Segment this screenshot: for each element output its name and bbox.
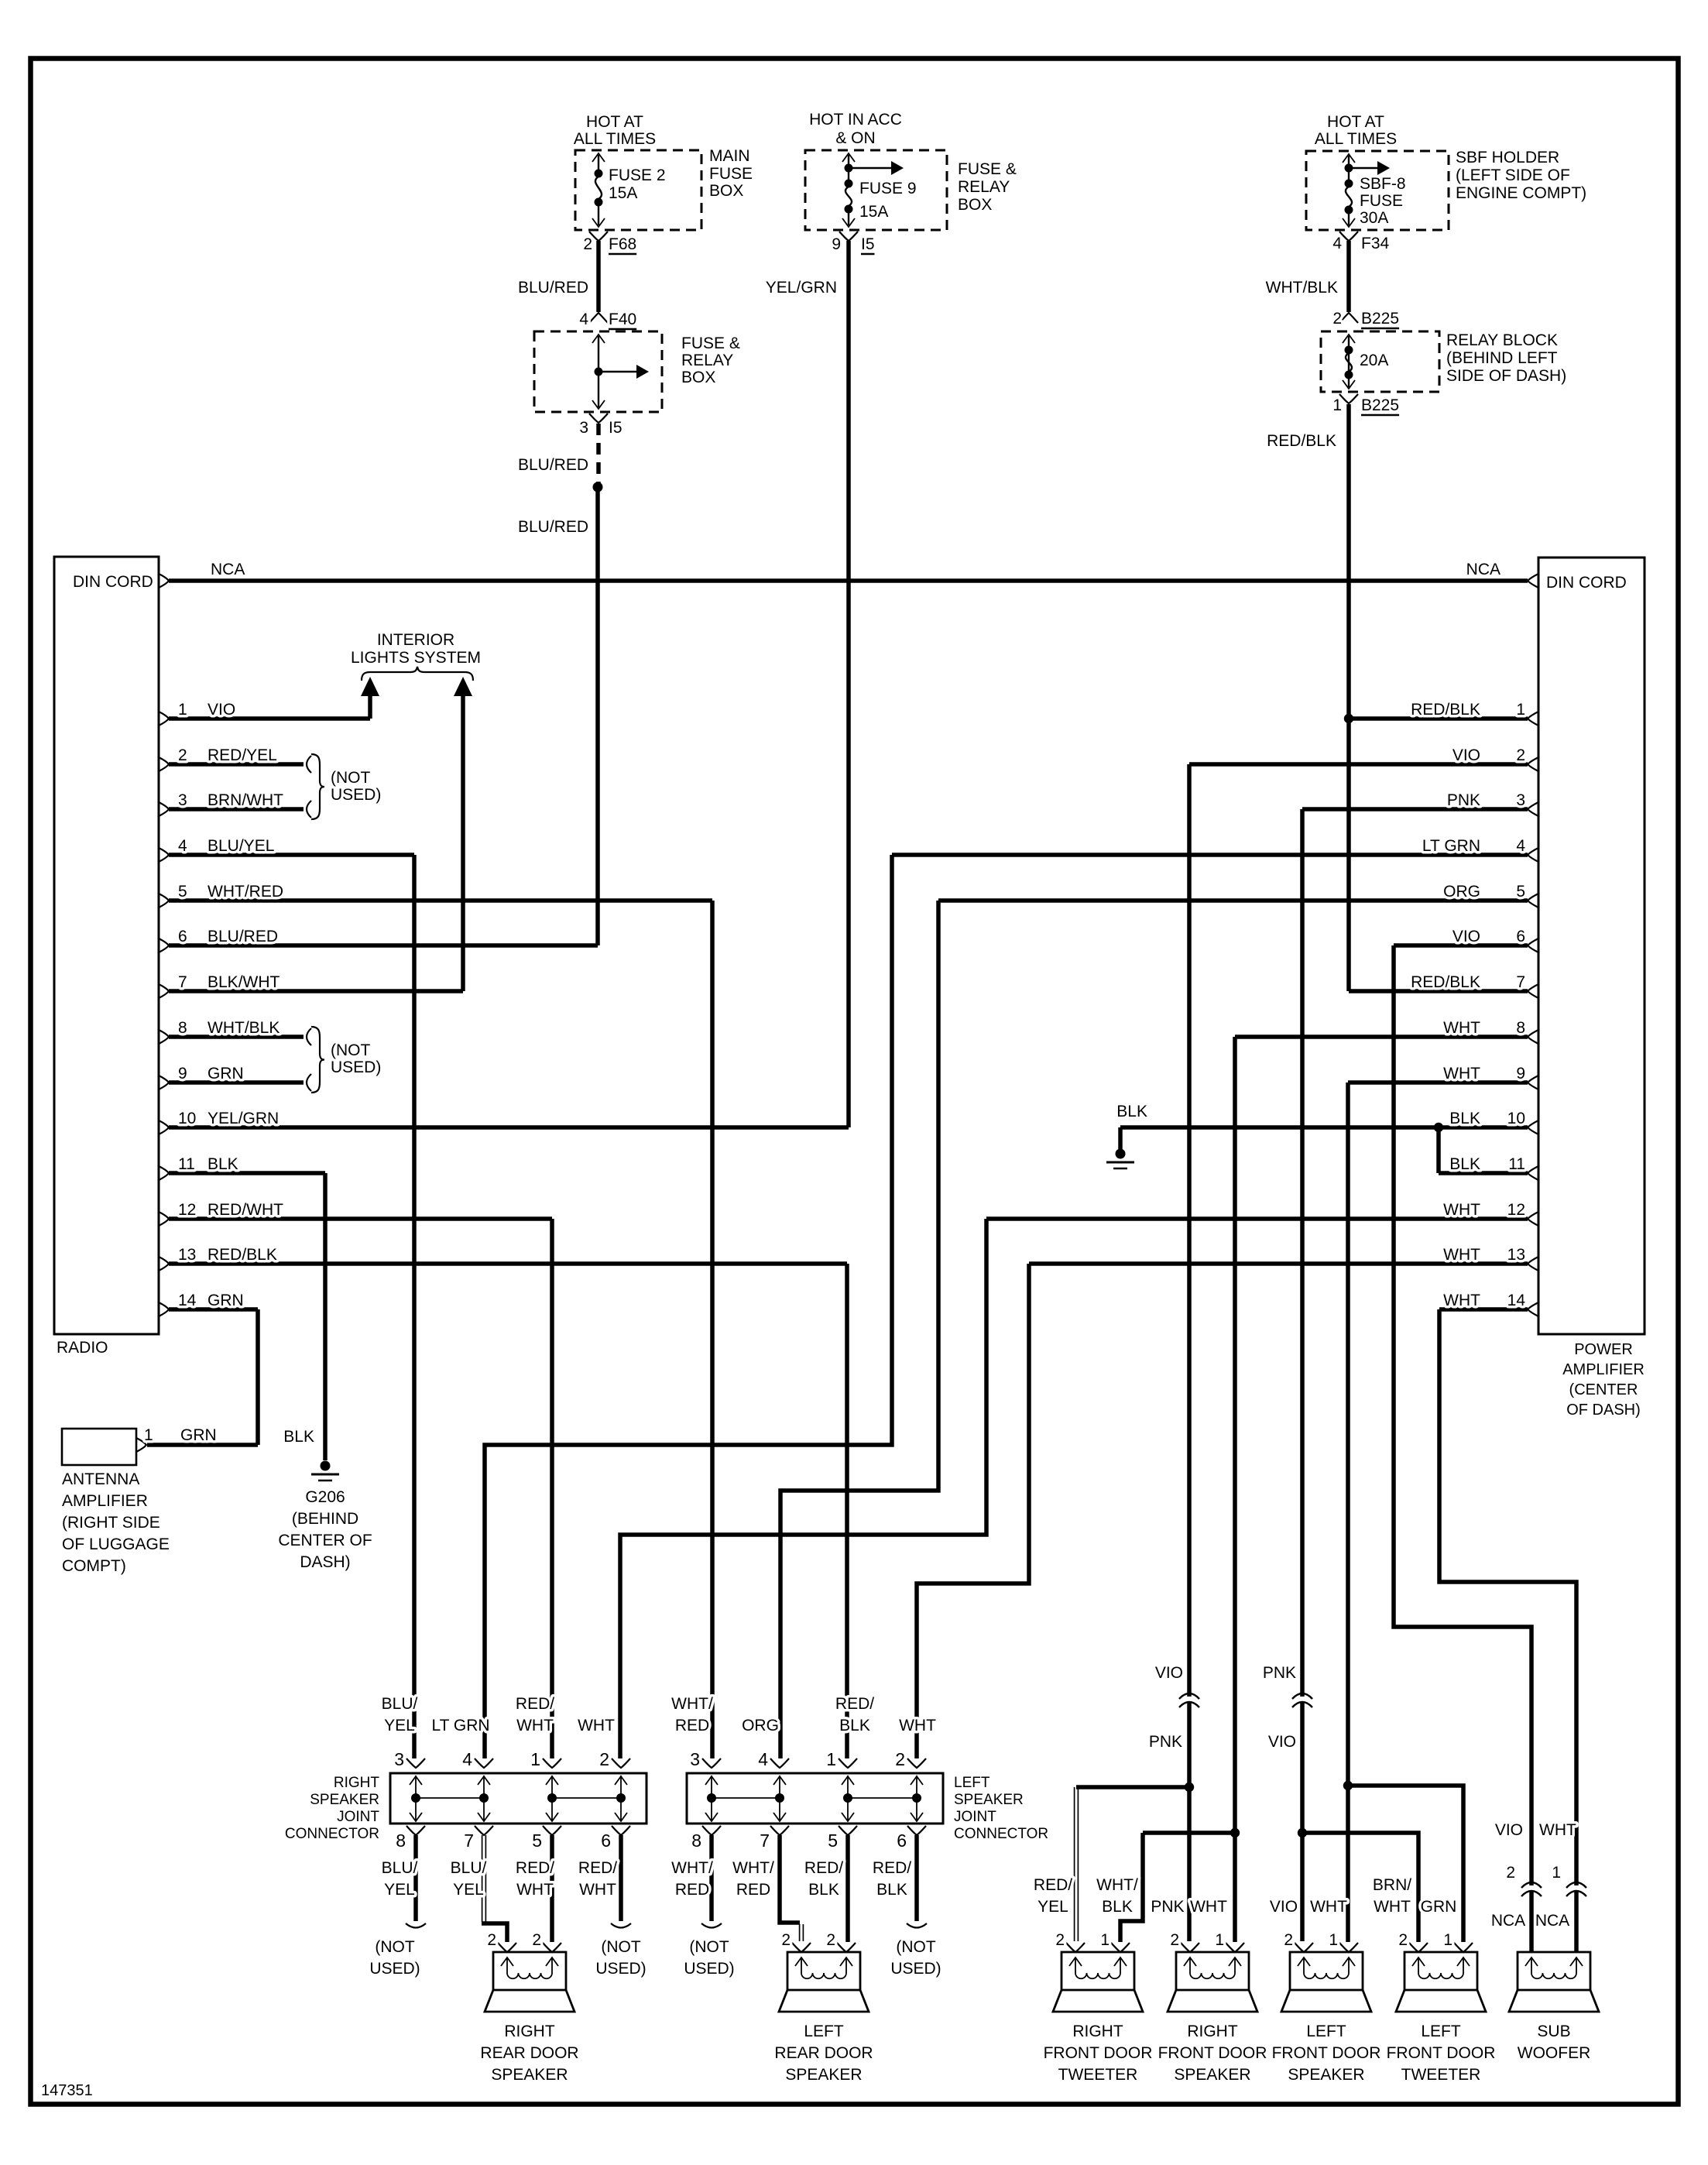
svg-text:SPEAKER: SPEAKER — [310, 1792, 379, 1808]
svg-text:JOINT: JOINT — [337, 1809, 379, 1825]
svg-text:BLK: BLK — [1449, 1110, 1480, 1127]
svg-text:RED/: RED/ — [516, 1695, 554, 1713]
svg-text:PNK: PNK — [1447, 791, 1480, 809]
svg-text:6: 6 — [1516, 928, 1525, 945]
svg-text:GRN: GRN — [207, 1292, 244, 1309]
svg-text:BLU/: BLU/ — [382, 1859, 418, 1877]
svg-text:WHT/: WHT/ — [732, 1859, 774, 1877]
svg-text:WHT: WHT — [1443, 1246, 1480, 1264]
svg-text:5: 5 — [1516, 883, 1525, 901]
svg-text:NCA: NCA — [1491, 1912, 1525, 1930]
svg-text:VIO: VIO — [207, 701, 235, 719]
svg-text:NCA: NCA — [1466, 561, 1501, 578]
svg-text:147351: 147351 — [41, 2082, 93, 2099]
svg-text:BLK: BLK — [1102, 1898, 1133, 1916]
svg-text:RED/: RED/ — [873, 1859, 911, 1877]
svg-text:TWEETER: TWEETER — [1058, 2066, 1138, 2084]
svg-text:RED/: RED/ — [835, 1695, 874, 1713]
svg-text:BOX: BOX — [958, 196, 992, 214]
svg-text:4: 4 — [1516, 837, 1525, 855]
svg-text:WHT: WHT — [1443, 1065, 1480, 1082]
svg-text:SBF HOLDER: SBF HOLDER — [1456, 149, 1559, 166]
svg-text:6: 6 — [601, 1830, 611, 1851]
svg-text:LIGHTS SYSTEM: LIGHTS SYSTEM — [351, 649, 481, 667]
svg-text:4: 4 — [178, 837, 187, 855]
svg-text:BLU/RED: BLU/RED — [518, 518, 588, 536]
svg-text:3: 3 — [690, 1749, 700, 1769]
svg-text:BLK: BLK — [876, 1881, 907, 1899]
svg-text:7: 7 — [464, 1830, 474, 1851]
svg-text:RIGHT: RIGHT — [334, 1775, 380, 1791]
svg-text:13: 13 — [178, 1246, 196, 1264]
svg-text:MAIN: MAIN — [709, 147, 750, 165]
svg-text:RED: RED — [736, 1881, 770, 1899]
svg-text:RED/: RED/ — [804, 1859, 843, 1877]
svg-text:ORG: ORG — [742, 1717, 779, 1734]
svg-text:2: 2 — [532, 1931, 541, 1949]
svg-text:11: 11 — [178, 1155, 195, 1173]
svg-text:RED: RED — [675, 1717, 709, 1734]
svg-text:10: 10 — [178, 1110, 196, 1127]
svg-text:SPEAKER: SPEAKER — [785, 2066, 862, 2084]
svg-text:5: 5 — [532, 1830, 542, 1851]
svg-text:FUSE 9: FUSE 9 — [859, 180, 917, 197]
svg-text:ALL TIMES: ALL TIMES — [1315, 130, 1397, 148]
svg-text:SIDE OF DASH): SIDE OF DASH) — [1446, 367, 1566, 385]
svg-text:1: 1 — [1329, 1931, 1338, 1949]
svg-text:DIN CORD: DIN CORD — [1546, 574, 1627, 592]
svg-text:12: 12 — [178, 1201, 196, 1219]
svg-text:OF DASH): OF DASH) — [1566, 1402, 1641, 1419]
svg-text:6: 6 — [897, 1830, 907, 1851]
svg-text:GRN: GRN — [180, 1426, 217, 1444]
svg-text:WHT: WHT — [899, 1717, 936, 1734]
svg-text:2: 2 — [599, 1749, 609, 1769]
svg-text:1: 1 — [144, 1426, 153, 1444]
svg-text:RED: RED — [675, 1881, 709, 1899]
svg-text:ENGINE COMPT): ENGINE COMPT) — [1456, 184, 1586, 202]
svg-text:RELAY BLOCK: RELAY BLOCK — [1446, 331, 1558, 349]
svg-text:WHT/BLK: WHT/BLK — [207, 1019, 280, 1037]
svg-text:YEL: YEL — [453, 1881, 484, 1899]
svg-text:CENTER OF: CENTER OF — [278, 1532, 372, 1549]
svg-text:BLK: BLK — [1449, 1155, 1480, 1173]
svg-text:9: 9 — [178, 1065, 187, 1082]
svg-text:LEFT: LEFT — [1306, 2023, 1346, 2040]
svg-text:RADIO: RADIO — [57, 1339, 108, 1357]
svg-text:(NOT: (NOT — [689, 1938, 729, 1956]
svg-text:GRN: GRN — [1421, 1898, 1457, 1916]
svg-text:FRONT DOOR: FRONT DOOR — [1272, 2044, 1381, 2062]
svg-text:DIN CORD: DIN CORD — [73, 573, 153, 591]
svg-text:4: 4 — [462, 1749, 472, 1769]
svg-text:13: 13 — [1507, 1246, 1525, 1264]
svg-text:& ON: & ON — [835, 129, 875, 147]
svg-text:(BEHIND: (BEHIND — [292, 1510, 358, 1528]
svg-text:BLU/: BLU/ — [451, 1859, 487, 1877]
svg-text:RED/BLK: RED/BLK — [1411, 973, 1480, 991]
svg-text:WHT: WHT — [1443, 1201, 1480, 1219]
svg-text:(NOT: (NOT — [601, 1938, 640, 1956]
svg-text:USED): USED) — [369, 1960, 420, 1978]
svg-text:BRN/: BRN/ — [1373, 1876, 1411, 1894]
svg-text:VIO: VIO — [1452, 746, 1480, 764]
svg-text:1: 1 — [1215, 1931, 1224, 1949]
svg-text:SUB: SUB — [1537, 2023, 1570, 2040]
svg-text:FRONT DOOR: FRONT DOOR — [1387, 2044, 1496, 2062]
svg-text:7: 7 — [1516, 973, 1525, 991]
svg-text:G206: G206 — [305, 1488, 345, 1506]
svg-text:2: 2 — [487, 1931, 496, 1949]
svg-text:12: 12 — [1507, 1201, 1525, 1219]
svg-text:FRONT DOOR: FRONT DOOR — [1044, 2044, 1153, 2062]
svg-text:HOT AT: HOT AT — [586, 113, 643, 131]
svg-text:BLK: BLK — [808, 1881, 839, 1899]
svg-text:GRN: GRN — [207, 1065, 244, 1082]
svg-text:TWEETER: TWEETER — [1401, 2066, 1481, 2084]
svg-text:BLK: BLK — [283, 1428, 314, 1446]
svg-text:4: 4 — [579, 311, 588, 328]
svg-text:VIO: VIO — [1452, 928, 1480, 945]
svg-text:FUSE &: FUSE & — [958, 160, 1017, 178]
svg-text:RED/BLK: RED/BLK — [1267, 432, 1336, 450]
svg-text:BLU/RED: BLU/RED — [518, 279, 588, 297]
svg-text:1: 1 — [178, 701, 187, 719]
svg-text:I5: I5 — [609, 419, 622, 437]
svg-text:REAR DOOR: REAR DOOR — [480, 2044, 578, 2062]
svg-text:DASH): DASH) — [300, 1553, 350, 1571]
svg-text:FRONT DOOR: FRONT DOOR — [1158, 2044, 1267, 2062]
svg-text:(CENTER: (CENTER — [1569, 1381, 1638, 1398]
svg-text:2: 2 — [1516, 746, 1525, 764]
svg-text:USED): USED) — [595, 1960, 646, 1978]
svg-text:14: 14 — [178, 1292, 197, 1309]
svg-text:2: 2 — [1284, 1931, 1293, 1949]
svg-text:2: 2 — [1332, 310, 1342, 328]
svg-text:BLK: BLK — [207, 1155, 238, 1173]
svg-text:B225: B225 — [1361, 310, 1399, 328]
svg-text:SPEAKER: SPEAKER — [1288, 2066, 1364, 2084]
svg-text:HOT IN ACC: HOT IN ACC — [809, 111, 902, 129]
svg-text:BLU/RED: BLU/RED — [207, 928, 278, 945]
svg-text:2: 2 — [1398, 1931, 1408, 1949]
svg-text:RIGHT: RIGHT — [1072, 2023, 1123, 2040]
svg-text:(RIGHT SIDE: (RIGHT SIDE — [62, 1514, 160, 1532]
svg-text:15A: 15A — [859, 203, 888, 221]
svg-text:YEL/GRN: YEL/GRN — [207, 1110, 279, 1127]
svg-text:5: 5 — [178, 883, 187, 901]
svg-text:(NOT: (NOT — [896, 1938, 935, 1956]
svg-text:WHT: WHT — [1190, 1898, 1227, 1916]
svg-text:9: 9 — [832, 235, 841, 253]
svg-text:30A: 30A — [1360, 209, 1388, 227]
svg-text:15A: 15A — [609, 184, 637, 202]
svg-text:14: 14 — [1507, 1292, 1526, 1309]
svg-text:4: 4 — [758, 1749, 768, 1769]
svg-text:REAR DOOR: REAR DOOR — [774, 2044, 873, 2062]
svg-text:WHT: WHT — [578, 1717, 615, 1734]
svg-text:3: 3 — [178, 791, 187, 809]
svg-text:AMPLIFIER: AMPLIFIER — [1562, 1361, 1645, 1378]
svg-text:RELAY: RELAY — [681, 352, 733, 369]
svg-text:PNK: PNK — [1149, 1733, 1182, 1751]
svg-text:(NOT: (NOT — [331, 1041, 370, 1059]
svg-text:RED/: RED/ — [578, 1859, 617, 1877]
svg-text:1: 1 — [1443, 1931, 1452, 1949]
svg-text:2: 2 — [1055, 1931, 1065, 1949]
svg-text:4: 4 — [1332, 235, 1342, 252]
svg-text:NCA: NCA — [211, 561, 245, 578]
svg-text:BLU/RED: BLU/RED — [518, 456, 588, 474]
svg-text:(NOT: (NOT — [331, 769, 370, 787]
svg-text:WHT/BLK: WHT/BLK — [1266, 279, 1338, 297]
svg-text:POWER: POWER — [1574, 1341, 1633, 1358]
svg-text:FUSE 2: FUSE 2 — [609, 166, 666, 184]
svg-text:SPEAKER: SPEAKER — [491, 2066, 568, 2084]
svg-text:1: 1 — [1332, 396, 1342, 414]
svg-text:WHT: WHT — [579, 1881, 616, 1899]
svg-text:BLK: BLK — [1116, 1103, 1147, 1120]
svg-text:WHT: WHT — [516, 1717, 554, 1734]
svg-text:BLU/YEL: BLU/YEL — [207, 837, 274, 855]
svg-text:7: 7 — [760, 1830, 770, 1851]
svg-text:(BEHIND LEFT: (BEHIND LEFT — [1446, 349, 1558, 367]
svg-text:RED/: RED/ — [516, 1859, 554, 1877]
svg-text:RELAY: RELAY — [958, 178, 1010, 196]
svg-text:USED): USED) — [890, 1960, 941, 1978]
svg-text:LT GRN: LT GRN — [431, 1717, 489, 1734]
svg-text:LEFT: LEFT — [954, 1775, 990, 1791]
svg-text:BRN/WHT: BRN/WHT — [207, 791, 283, 809]
svg-text:WHT: WHT — [1539, 1821, 1576, 1839]
svg-text:USED): USED) — [331, 1058, 381, 1076]
svg-text:SBF-8: SBF-8 — [1360, 175, 1406, 193]
svg-text:6: 6 — [178, 928, 187, 945]
svg-text:8: 8 — [1516, 1019, 1525, 1037]
svg-text:(LEFT SIDE OF: (LEFT SIDE OF — [1456, 166, 1570, 184]
svg-text:F40: F40 — [609, 311, 636, 328]
svg-text:VIO: VIO — [1268, 1733, 1296, 1751]
svg-text:2: 2 — [178, 746, 187, 764]
svg-text:1: 1 — [1516, 701, 1525, 719]
svg-text:YEL: YEL — [1037, 1898, 1068, 1916]
svg-text:2: 2 — [1170, 1931, 1179, 1949]
svg-text:JOINT: JOINT — [954, 1809, 996, 1825]
svg-text:FUSE &: FUSE & — [681, 335, 740, 352]
svg-text:SPEAKER: SPEAKER — [954, 1792, 1024, 1808]
svg-text:WHT: WHT — [516, 1881, 554, 1899]
svg-text:VIO: VIO — [1270, 1898, 1298, 1916]
svg-text:RED/YEL: RED/YEL — [207, 746, 277, 764]
svg-text:VIO: VIO — [1495, 1821, 1523, 1839]
svg-text:5: 5 — [828, 1830, 838, 1851]
svg-text:3: 3 — [579, 419, 588, 437]
svg-text:RED/BLK: RED/BLK — [207, 1246, 277, 1264]
svg-text:BLU/: BLU/ — [382, 1695, 418, 1713]
svg-text:2: 2 — [781, 1931, 791, 1949]
svg-text:3: 3 — [394, 1749, 404, 1769]
svg-text:BOX: BOX — [681, 369, 715, 386]
svg-text:2: 2 — [895, 1749, 905, 1769]
svg-text:RIGHT: RIGHT — [1187, 2023, 1238, 2040]
svg-text:WHT/RED: WHT/RED — [207, 883, 283, 901]
svg-text:COMPT): COMPT) — [62, 1557, 126, 1575]
svg-text:ANTENNA: ANTENNA — [62, 1470, 139, 1488]
svg-text:VIO: VIO — [1155, 1664, 1183, 1682]
svg-text:1: 1 — [1552, 1864, 1561, 1882]
svg-text:WHT/: WHT/ — [671, 1859, 713, 1877]
svg-text:F68: F68 — [609, 235, 636, 253]
svg-text:20A: 20A — [1360, 352, 1388, 369]
svg-text:SPEAKER: SPEAKER — [1174, 2066, 1250, 2084]
svg-text:YEL: YEL — [384, 1881, 415, 1899]
svg-text:HOT AT: HOT AT — [1327, 113, 1384, 131]
svg-text:1: 1 — [530, 1749, 540, 1769]
svg-text:1: 1 — [826, 1749, 836, 1769]
svg-text:2: 2 — [826, 1931, 835, 1949]
svg-text:OF LUGGAGE: OF LUGGAGE — [62, 1535, 170, 1553]
svg-text:3: 3 — [1516, 791, 1525, 809]
svg-text:ORG: ORG — [1443, 883, 1480, 901]
svg-text:LEFT: LEFT — [804, 2023, 844, 2040]
svg-text:RED/: RED/ — [1034, 1876, 1072, 1894]
svg-text:BLK: BLK — [839, 1717, 870, 1734]
svg-text:WHT: WHT — [1374, 1898, 1411, 1916]
svg-text:INTERIOR: INTERIOR — [377, 631, 454, 649]
svg-text:8: 8 — [178, 1019, 187, 1037]
svg-text:RED/WHT: RED/WHT — [207, 1201, 283, 1219]
svg-text:8: 8 — [691, 1830, 701, 1851]
svg-text:YEL: YEL — [384, 1717, 415, 1734]
svg-text:ALL TIMES: ALL TIMES — [574, 130, 656, 148]
svg-text:FUSE: FUSE — [1360, 192, 1403, 210]
svg-text:RIGHT: RIGHT — [504, 2023, 555, 2040]
svg-text:8: 8 — [396, 1830, 406, 1851]
svg-text:1: 1 — [1100, 1931, 1110, 1949]
svg-text:BOX: BOX — [709, 182, 743, 200]
svg-text:2: 2 — [583, 235, 592, 253]
svg-text:F34: F34 — [1361, 235, 1390, 252]
svg-text:AMPLIFIER: AMPLIFIER — [62, 1492, 148, 1510]
svg-text:I5: I5 — [861, 235, 875, 253]
svg-text:PNK: PNK — [1263, 1664, 1296, 1682]
svg-text:WHT: WHT — [1310, 1898, 1347, 1916]
svg-text:7: 7 — [178, 973, 187, 991]
svg-text:WOOFER: WOOFER — [1518, 2044, 1591, 2062]
svg-text:BLK/WHT: BLK/WHT — [207, 973, 280, 991]
svg-text:LEFT: LEFT — [1421, 2023, 1461, 2040]
svg-text:9: 9 — [1516, 1065, 1525, 1082]
svg-text:2: 2 — [1506, 1864, 1515, 1882]
svg-text:PNK: PNK — [1151, 1898, 1184, 1916]
svg-text:NCA: NCA — [1535, 1912, 1569, 1930]
svg-text:(NOT: (NOT — [375, 1938, 414, 1956]
svg-text:CONNECTOR: CONNECTOR — [285, 1826, 379, 1842]
svg-text:YEL/GRN: YEL/GRN — [766, 279, 837, 297]
svg-text:10: 10 — [1507, 1110, 1525, 1127]
svg-text:RED/BLK: RED/BLK — [1411, 701, 1480, 719]
svg-text:11: 11 — [1508, 1155, 1525, 1173]
svg-text:LT GRN: LT GRN — [1422, 837, 1480, 855]
svg-text:USED): USED) — [684, 1960, 734, 1978]
svg-text:WHT/: WHT/ — [1096, 1876, 1138, 1894]
svg-text:WHT: WHT — [1443, 1019, 1480, 1037]
svg-text:FUSE: FUSE — [709, 165, 753, 183]
svg-text:WHT/: WHT/ — [671, 1695, 713, 1713]
svg-text:CONNECTOR: CONNECTOR — [954, 1826, 1048, 1842]
svg-text:WHT: WHT — [1443, 1292, 1480, 1309]
svg-text:USED): USED) — [331, 786, 381, 804]
svg-text:B225: B225 — [1361, 396, 1399, 414]
